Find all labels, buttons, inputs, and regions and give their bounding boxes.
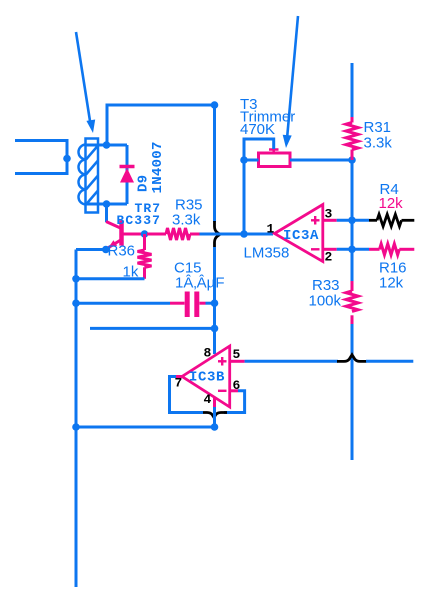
svg-text:BC337: BC337	[117, 213, 162, 228]
wire: IC3B pin5 stub	[230, 360, 245, 363]
svg-text:3.3k: 3.3k	[364, 135, 393, 152]
resistor R16	[369, 244, 414, 255]
wire: pin2 net blue	[337, 248, 369, 251]
wire: coil bottom to diode branch	[86, 203, 127, 206]
svg-text:470K: 470K	[240, 121, 275, 138]
node: left rail C15 junction	[72, 299, 80, 307]
node: trimmer right junction	[348, 156, 356, 164]
resistor R31	[346, 117, 358, 160]
wire: bottom horizontal	[76, 426, 215, 429]
op-amp IC3B	[182, 346, 230, 407]
svg-text:4: 4	[204, 392, 212, 407]
node: left rail R36 junction	[72, 275, 80, 283]
wire: stub wire y=328	[90, 327, 215, 330]
wire: trimmer wiper loop	[244, 139, 274, 160]
wire: R36 bottom to left rail	[76, 277, 145, 280]
node: left rail bottom junction	[72, 423, 80, 431]
annotation arrow to relay coil	[76, 32, 95, 133]
wire: pin4 down to bottom wire	[213, 407, 216, 427]
relay coil windings	[79, 145, 99, 205]
wire: main vertical x=214.5 upper	[213, 105, 216, 222]
wire: coil top to diode branch	[86, 144, 127, 147]
wire: left connector bottom stub	[15, 172, 67, 175]
node: connector junction	[63, 155, 71, 163]
wire: right vertical below R33	[351, 324, 354, 460]
wire: IC3B pin6 stub	[230, 389, 238, 392]
wire: trimmer left terminal	[244, 159, 259, 162]
wire: top horizontal bus	[107, 105, 215, 145]
wire: IC3B pin4 stub	[213, 398, 216, 408]
wire: pin3 net blue	[337, 219, 369, 222]
svg-text:IC3B: IC3B	[189, 370, 225, 386]
node: trimmer left junction	[240, 156, 248, 164]
wire: trimmer right terminal	[290, 159, 352, 162]
trimmer T3	[259, 150, 291, 167]
wire: left connector top stub	[15, 139, 67, 142]
wire: emitter to left rail	[76, 248, 106, 251]
node: y328 wire junction	[211, 325, 219, 333]
svg-text:1Â‚ÂµF: 1Â‚ÂµF	[175, 275, 225, 292]
resistor R33	[346, 281, 358, 324]
wire: IC3A pin3 stub	[323, 219, 337, 222]
node: pin2 net junction	[348, 246, 356, 254]
wire: left connector vertical	[66, 139, 69, 175]
node: pin3 net junction	[348, 217, 356, 225]
wire: diode branch vertical	[126, 145, 129, 204]
svg-text:IC3A: IC3A	[283, 228, 319, 244]
IC3A minus sign	[311, 248, 320, 250]
diode D9 symbol	[120, 167, 135, 183]
IC3A plus sign	[311, 216, 320, 225]
IC3B minus sign	[218, 390, 227, 392]
annotation arrow to trimmer	[283, 16, 298, 148]
node: C15 right junction	[211, 299, 219, 307]
wire: feedback left segment to pin7	[170, 377, 204, 413]
svg-text:2: 2	[325, 250, 333, 265]
IC3B plus sign	[218, 357, 227, 366]
wire: R35 to IC3A pin1	[200, 233, 274, 236]
op-amp IC3A	[275, 205, 323, 262]
svg-text:3.3k: 3.3k	[172, 212, 201, 229]
node: base junction	[141, 230, 149, 238]
resistor R35	[147, 228, 200, 240]
wire: pin5 net blue right of hop	[366, 360, 413, 363]
wire hop: feedback over pin4 wire	[202, 413, 227, 418]
wire: pin5 net blue left of hop	[245, 360, 338, 363]
node: emitter junction	[102, 246, 110, 254]
node: top bus right junction	[211, 101, 219, 109]
wire: right vertical x=352	[351, 160, 354, 281]
svg-text:12k: 12k	[379, 195, 404, 212]
wire hop: vertical over pin1 wire	[215, 221, 221, 248]
wire hop: pin5 wire over right vertical	[337, 355, 367, 362]
wire: feedback pin6 to corner	[224, 391, 245, 413]
wire: base wire	[123, 233, 141, 236]
svg-text:R36: R36	[108, 243, 136, 260]
svg-text:1N4007: 1N4007	[150, 141, 166, 193]
node: coil top junction	[103, 141, 111, 149]
wire: left rail vertical	[75, 250, 78, 588]
svg-text:100k: 100k	[309, 293, 342, 310]
svg-text:LM358: LM358	[244, 245, 290, 262]
svg-text:12k: 12k	[379, 275, 404, 292]
wire: IC3B pin7 stub	[176, 375, 182, 378]
wire: IC3A pin2 stub	[323, 248, 337, 251]
wire: trimmer left branch down to pin1 net	[243, 160, 246, 234]
svg-text:1: 1	[267, 222, 275, 237]
wire: main vertical x=214.5 lower	[213, 247, 216, 354]
svg-text:8: 8	[204, 346, 212, 361]
svg-text:R31: R31	[364, 119, 392, 136]
wire: R31 top feed	[351, 63, 354, 117]
resistor R4	[369, 214, 414, 226]
wire: collector vertical	[105, 204, 108, 222]
node: coil bottom junction	[103, 200, 111, 208]
resistor R36	[138, 234, 152, 279]
svg-text:R33: R33	[312, 277, 340, 294]
capacitor C15	[76, 292, 215, 318]
node: trimmer branch junction	[240, 230, 248, 238]
relay coil L (box)	[86, 139, 99, 213]
transistor TR7 BC337	[106, 221, 122, 249]
svg-text:5: 5	[233, 347, 241, 362]
node: pin4 bottom junction	[211, 423, 219, 431]
